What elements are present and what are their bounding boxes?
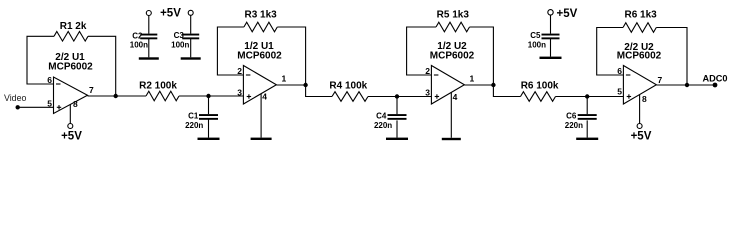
resistor R2 100k xyxy=(139,80,179,100)
+5V supply node (C3) xyxy=(188,10,193,15)
svg-text:6: 6 xyxy=(617,66,622,76)
wire R6 1k3 to U2b output xyxy=(656,28,687,86)
wire U1b pin 4 to ground xyxy=(260,94,262,138)
junction node U2a output/feedback xyxy=(491,83,495,87)
svg-text:MCP6002: MCP6002 xyxy=(237,51,282,62)
svg-text:2: 2 xyxy=(237,66,242,76)
svg-text:100n: 100n xyxy=(171,40,189,49)
ground U1b pin 4 xyxy=(251,138,272,140)
svg-text:220n: 220n xyxy=(185,121,203,130)
junction node R2/C1 xyxy=(206,94,210,98)
svg-text:100n: 100n xyxy=(130,40,148,49)
wire U2b pin 7 output xyxy=(656,84,687,86)
junction node U1b output/feedback xyxy=(303,83,307,87)
svg-text:+5V: +5V xyxy=(557,8,578,20)
svg-text:5: 5 xyxy=(47,98,52,108)
resistor R5 1k3 xyxy=(436,10,470,32)
wire U1 pin 6 feedback left segment xyxy=(27,36,54,84)
svg-text:R6 1k3: R6 1k3 xyxy=(624,10,657,21)
svg-text:R4 100k: R4 100k xyxy=(329,80,367,91)
wire R6 to U2b pin 5 xyxy=(556,96,624,98)
wire R4 to U2a pin 3 xyxy=(368,96,431,98)
capacitor C2 100n xyxy=(130,16,158,58)
svg-text:C5: C5 xyxy=(530,31,541,40)
svg-text:C4: C4 xyxy=(376,111,387,120)
capacitor C1 220n xyxy=(185,96,218,138)
svg-text:ADC0: ADC0 xyxy=(703,74,728,84)
wire R5 to U2a output xyxy=(470,27,494,85)
svg-text:R6 100k: R6 100k xyxy=(521,80,559,91)
resistor R3 1k3 xyxy=(244,9,277,32)
ground C4 xyxy=(386,138,408,140)
wire R2 to U1b pin 3 xyxy=(179,95,243,97)
svg-text:2: 2 xyxy=(425,66,430,76)
wire U1b pin 2 feedback left segment xyxy=(217,27,244,75)
ground C6 xyxy=(576,138,598,140)
op-amp U1 half 1/2 (MCP6002) xyxy=(243,66,276,105)
resistor R6 1k3 (feedback) xyxy=(623,10,657,33)
svg-text:Video: Video xyxy=(4,93,26,103)
wire U2a output down to R6 xyxy=(493,85,520,97)
svg-text:R5 1k3: R5 1k3 xyxy=(437,10,470,21)
wire U2b pin 8 to +5V xyxy=(639,95,641,124)
svg-text:C3: C3 xyxy=(174,31,185,40)
svg-text:MCP6002: MCP6002 xyxy=(430,51,475,62)
wire U1b pin 1 output xyxy=(276,84,305,86)
wire U1 pin 8 to +5V xyxy=(69,105,71,124)
wire U2a pin 2 feedback left segment xyxy=(407,27,436,75)
ground C5 xyxy=(540,57,562,59)
svg-text:+5V: +5V xyxy=(631,130,652,142)
ground C2 xyxy=(139,57,159,59)
svg-text:1: 1 xyxy=(470,74,475,84)
wire R3 to U1b output xyxy=(277,27,305,85)
+5V supply node (U2b pin 8) xyxy=(631,124,652,143)
svg-text:R1 2k: R1 2k xyxy=(60,21,87,32)
svg-text:R2 100k: R2 100k xyxy=(139,80,177,91)
svg-text:4: 4 xyxy=(262,92,267,102)
capacitor C3 100n xyxy=(171,15,199,57)
svg-text:MCP6002: MCP6002 xyxy=(617,51,662,62)
wire U2a pin 4 to ground xyxy=(450,92,452,137)
svg-text:4: 4 xyxy=(453,92,458,102)
svg-text:MCP6002: MCP6002 xyxy=(48,61,93,72)
svg-text:R3 1k3: R3 1k3 xyxy=(244,9,277,20)
svg-text:220n: 220n xyxy=(374,121,392,130)
wire U2b output to ADC0 xyxy=(687,84,715,86)
capacitor C5 100n xyxy=(528,15,560,57)
svg-text:8: 8 xyxy=(642,94,647,104)
op-amp U1 half 2/2 (MCP6002) xyxy=(54,77,88,114)
capacitor C6 220n xyxy=(565,97,597,138)
node ADC0 output xyxy=(703,74,728,88)
ground C1 xyxy=(198,138,220,140)
wire R1 to U1 output xyxy=(88,36,116,96)
svg-text:7: 7 xyxy=(658,75,663,85)
+5V supply node (C5) xyxy=(548,10,553,15)
junction node R4/C4 xyxy=(395,94,399,98)
svg-text:3: 3 xyxy=(425,87,430,97)
svg-text:+5V: +5V xyxy=(61,130,82,142)
+5V supply node (C2) xyxy=(146,11,151,16)
wire U2b pin 6 feedback left segment xyxy=(597,28,624,76)
capacitor C4 220n xyxy=(374,97,407,138)
ground C3 xyxy=(181,57,201,59)
svg-text:C1: C1 xyxy=(188,111,199,120)
op-amp U2 half 2/2 (MCP6002) xyxy=(623,66,656,105)
wire Video to U1 pin 5 xyxy=(18,106,54,108)
+5V supply node (U1 pin 8) xyxy=(61,124,82,143)
svg-text:C6: C6 xyxy=(566,111,577,120)
svg-text:8: 8 xyxy=(73,99,78,109)
svg-text:5: 5 xyxy=(617,86,622,96)
ground U2a pin 4 xyxy=(442,138,461,140)
wire U1b output down to R4 xyxy=(306,85,332,97)
svg-text:100n: 100n xyxy=(528,40,546,49)
svg-text:7: 7 xyxy=(89,85,94,95)
wire U2a pin 1 output xyxy=(464,84,493,86)
junction node U2b output/feedback xyxy=(685,83,689,87)
node Video input xyxy=(4,93,26,109)
junction node R6/C6 xyxy=(585,94,589,98)
svg-text:220n: 220n xyxy=(565,121,583,130)
op-amp U2 half 1/2 (MCP6002) xyxy=(431,66,464,105)
resistor R6 100k xyxy=(521,80,559,101)
svg-text:3: 3 xyxy=(237,87,242,97)
junction node U1 output/feedback xyxy=(114,94,118,98)
resistor R1 2k xyxy=(54,21,88,41)
svg-text:C2: C2 xyxy=(132,31,143,40)
svg-text:1: 1 xyxy=(282,74,287,84)
svg-text:+5V: +5V xyxy=(160,8,181,20)
wire U1 pin 7 output to R2 xyxy=(88,95,147,97)
resistor R4 100k xyxy=(329,80,368,101)
